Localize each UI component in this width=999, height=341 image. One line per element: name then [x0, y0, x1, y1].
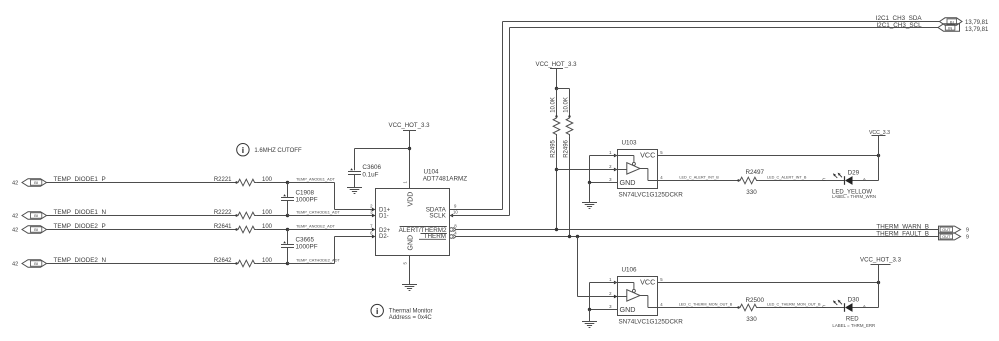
U104 pin ALERT/THERM2 (8) — [399, 223, 458, 234]
svg-text:OUT: OUT — [942, 228, 951, 232]
net label LED_C_THERM_MON_OUT_B — [679, 303, 733, 307]
wire — [658, 307, 739, 309]
wire U103 pin1/pin3 — [590, 156, 618, 183]
svg-text:TEMP_CATHODE2_ADT: TEMP_CATHODE2_ADT — [296, 258, 340, 263]
node VDD branch — [408, 147, 411, 150]
svg-text:10.0K: 10.0K — [564, 97, 570, 113]
svg-text:i: i — [242, 145, 244, 155]
svg-text:100: 100 — [262, 210, 273, 216]
power VCC_HOT_3.3 — [860, 257, 902, 308]
capacitor C3606 — [348, 164, 381, 188]
node TEMP_CATHODE1_ADT — [286, 210, 341, 218]
svg-text:ADT7481ARMZ: ADT7481ARMZ — [423, 176, 468, 183]
svg-text:2: 2 — [609, 291, 612, 296]
LED D30 — [832, 297, 875, 329]
U103 pin GND (3) — [609, 177, 635, 187]
svg-text:OUT: OUT — [942, 235, 951, 239]
LED D29 — [832, 170, 876, 199]
U106 pin 2 arrow — [609, 291, 617, 298]
svg-text:IN: IN — [948, 26, 952, 31]
node — [568, 235, 571, 238]
svg-text:0.1uF: 0.1uF — [362, 171, 378, 178]
net label TEMP_DIODE2_N — [54, 257, 107, 264]
svg-text:A: A — [863, 177, 866, 182]
svg-text:R2222: R2222 — [214, 210, 232, 216]
buffer U106 box — [618, 267, 684, 326]
svg-text:R2642: R2642 — [214, 258, 232, 264]
svg-text:8: 8 — [454, 223, 457, 228]
page ref 42 — [12, 181, 18, 187]
node TEMP_CATHODE2_ADT — [286, 258, 341, 265]
svg-text:BI: BI — [34, 213, 38, 218]
node TEMP_ANODE2_ADT — [286, 224, 336, 232]
port TEMP_DIODE2_P (BI) — [22, 226, 47, 234]
svg-text:100: 100 — [262, 177, 273, 183]
page ref 9 — [966, 228, 969, 234]
svg-text:R2495: R2495 — [551, 139, 557, 157]
node TEMP_ANODE1_ADT — [286, 177, 336, 185]
U103 internal buffer triangle — [618, 156, 658, 181]
port TEMP_DIODE2_N (BI) — [22, 260, 47, 268]
resistor R2642 — [214, 258, 273, 267]
svg-text:13,79,81: 13,79,81 — [965, 27, 989, 33]
U103 pin VCC (5) — [640, 150, 663, 160]
svg-text:I2C1_CH3_SCL: I2C1_CH3_SCL — [876, 22, 922, 29]
capacitor C3665 — [281, 230, 318, 264]
U104 pin VDD (1) — [403, 181, 415, 207]
wire — [589, 310, 591, 322]
ground — [402, 285, 417, 291]
svg-text:i: i — [376, 306, 378, 316]
svg-text:D1-: D1- — [379, 213, 389, 219]
svg-text:D2-: D2- — [379, 234, 389, 240]
page ref 42 — [12, 228, 18, 234]
svg-text:C: C — [822, 177, 826, 182]
svg-text:10: 10 — [453, 210, 458, 215]
port I2C1_CH3_SDA (BI) — [940, 18, 963, 25]
wire — [758, 180, 844, 182]
svg-text:2: 2 — [370, 204, 373, 209]
svg-text:TEMP_ANODE2_ADT: TEMP_ANODE2_ADT — [296, 224, 336, 229]
wire — [47, 215, 237, 217]
svg-text:TEMP_DIODE1_P: TEMP_DIODE1_P — [54, 176, 106, 183]
svg-text:42: 42 — [12, 181, 18, 187]
resistor R2495 — [551, 97, 560, 158]
svg-text:5: 5 — [660, 150, 663, 155]
page ref 9 — [966, 235, 969, 241]
svg-text:9: 9 — [966, 228, 969, 234]
U106 pin 4 label — [660, 302, 663, 307]
wire — [557, 89, 570, 117]
svg-text:BI: BI — [34, 227, 38, 232]
svg-text:BI: BI — [34, 180, 38, 185]
wire THERM_FAULT_B — [456, 236, 939, 238]
node — [555, 228, 558, 231]
wire — [288, 229, 372, 231]
LED D29 cathode label — [822, 177, 826, 182]
U104 pin THERM (4) — [419, 230, 457, 240]
svg-text:6: 6 — [370, 231, 373, 236]
svg-text:LED_C_THERM_MON_OUT_B: LED_C_THERM_MON_OUT_B — [767, 303, 821, 307]
svg-text:330: 330 — [746, 189, 757, 196]
svg-text:TEMP_ANODE1_ADT: TEMP_ANODE1_ADT — [296, 177, 336, 182]
svg-text:VCC_HOT_3.3: VCC_HOT_3.3 — [389, 122, 431, 129]
U106 pin GND (3) — [609, 304, 635, 314]
power VCC_3.3 — [869, 130, 890, 181]
U104 pin SCLK (10) — [429, 210, 458, 220]
svg-text:100: 100 — [262, 224, 273, 230]
wire — [288, 183, 372, 210]
node — [555, 168, 558, 171]
page ref 13,79,81 — [965, 20, 989, 26]
node — [877, 281, 880, 284]
page ref 42 — [12, 262, 18, 268]
note 1.6MHZ CUTOFF — [237, 144, 302, 156]
port THERM_FAULT_B (OUT) — [939, 233, 961, 240]
U103 pin 4 label — [660, 175, 663, 180]
page ref 42 — [12, 214, 18, 220]
svg-text:9: 9 — [966, 235, 969, 241]
net label I2C1_CH3_SCL — [876, 22, 922, 29]
wire — [256, 182, 287, 184]
LED D30 cathode label — [822, 304, 826, 309]
U106 pin 1 arrow — [609, 277, 617, 284]
svg-text:LED_C_ALERT_INT_B: LED_C_ALERT_INT_B — [679, 176, 719, 180]
svg-text:LABEL = THRM_ERR: LABEL = THRM_ERR — [832, 323, 875, 328]
svg-text:VCC: VCC — [640, 151, 655, 160]
note Thermal Monitor Address = 0x4C — [371, 304, 432, 321]
svg-text:VDD: VDD — [408, 192, 415, 207]
svg-text:LED_C_ALERT_INT_B: LED_C_ALERT_INT_B — [767, 176, 807, 180]
svg-text:R2641: R2641 — [214, 224, 232, 230]
node — [576, 235, 579, 238]
svg-text:VCC: VCC — [640, 278, 655, 287]
wire — [658, 155, 879, 157]
svg-text:A: A — [863, 304, 866, 309]
U104 pin D1+ (2) — [370, 204, 391, 214]
buffer U103 box — [618, 140, 684, 199]
ground — [582, 322, 597, 328]
svg-text:3: 3 — [609, 304, 612, 309]
svg-text:SCLK: SCLK — [429, 212, 446, 219]
svg-text:5: 5 — [403, 262, 408, 265]
wire — [355, 149, 410, 171]
svg-text:Address = 0x4C: Address = 0x4C — [389, 315, 433, 321]
svg-text:7: 7 — [370, 224, 373, 229]
wire — [569, 136, 571, 236]
page ref 13,79,81 — [965, 27, 989, 33]
svg-text:10.0K: 10.0K — [551, 97, 557, 113]
svg-text:THERM_FAULT_B: THERM_FAULT_B — [876, 230, 929, 237]
svg-text:R2221: R2221 — [214, 177, 232, 183]
net label TEMP_DIODE2_P — [54, 223, 106, 230]
net label LED_C_ALERT_INT_B — [767, 176, 807, 180]
U106 internal buffer triangle — [618, 283, 658, 308]
svg-text:1: 1 — [403, 181, 408, 184]
wire U106 pin2 feed — [578, 237, 618, 297]
svg-text:LABEL = THRM_WRN: LABEL = THRM_WRN — [832, 194, 876, 199]
node — [588, 181, 591, 184]
wire — [758, 307, 844, 309]
port TEMP_DIODE1_N (BI) — [22, 212, 47, 220]
svg-text:13,79,81: 13,79,81 — [965, 20, 989, 26]
svg-text:BI: BI — [34, 261, 38, 266]
svg-text:R2496: R2496 — [564, 139, 570, 157]
wire SCLK — [450, 28, 939, 216]
svg-text:Thermal Monitor: Thermal Monitor — [389, 309, 433, 315]
U104 pin GND (5) — [403, 235, 415, 285]
svg-text:2: 2 — [609, 164, 612, 169]
U104 pin D2- (6) — [370, 231, 389, 240]
port I2C1_CH3_SCL (IN) — [938, 24, 960, 31]
svg-text:C3606: C3606 — [362, 164, 381, 171]
resistor R2222 — [214, 210, 273, 219]
net label LED_C_THERM_MON_OUT_B — [767, 303, 821, 307]
net label THERM_FAULT_B — [876, 230, 929, 237]
resistor R2500 — [737, 297, 764, 323]
resistor R2641 — [214, 224, 273, 233]
U106 pin VCC (5) — [640, 277, 663, 287]
resistor R2221 — [214, 177, 273, 186]
net label I2C1_CH3_SDA — [876, 15, 923, 22]
net label LED_C_ALERT_INT_B — [679, 176, 719, 180]
wire — [589, 183, 591, 203]
svg-text:C: C — [822, 304, 826, 309]
svg-text:3: 3 — [609, 177, 612, 182]
capacitor C1908 — [281, 183, 318, 216]
wire — [256, 263, 287, 265]
svg-text:GND: GND — [620, 178, 636, 187]
wire — [47, 182, 237, 184]
net label TEMP_DIODE1_P — [54, 176, 106, 183]
svg-text:4: 4 — [660, 302, 663, 307]
svg-text:5: 5 — [660, 277, 663, 282]
wire — [853, 307, 879, 309]
svg-text:GND: GND — [408, 235, 415, 251]
wire — [556, 136, 558, 229]
svg-text:THERM_WARN_B: THERM_WARN_B — [876, 223, 929, 230]
svg-text:GND: GND — [620, 305, 636, 314]
wire U106 pin1/pin3 — [590, 283, 618, 310]
port THERM_WARN_B (OUT) — [939, 226, 961, 233]
U103 pin 2 arrow — [609, 164, 617, 171]
resistor R2496 — [564, 97, 573, 158]
svg-text:VCC_HOT_3.3: VCC_HOT_3.3 — [860, 257, 902, 264]
svg-text:D29: D29 — [848, 170, 860, 177]
svg-text:R2497: R2497 — [746, 169, 765, 176]
U103 pin 1 arrow — [609, 150, 617, 157]
svg-text:4: 4 — [454, 230, 457, 235]
svg-text:U104: U104 — [424, 169, 440, 176]
svg-text:LED_C_THERM_MON_OUT_B: LED_C_THERM_MON_OUT_B — [679, 303, 733, 307]
svg-text:9: 9 — [454, 204, 457, 209]
wire SDATA — [450, 22, 940, 210]
net label TEMP_DIODE1_N — [54, 209, 107, 216]
svg-text:RED: RED — [846, 317, 859, 323]
svg-text:I2C1_CH3_SDA: I2C1_CH3_SDA — [876, 15, 923, 22]
net label THERM_WARN_B — [876, 223, 929, 230]
resistor R2497 — [737, 169, 764, 196]
power VCC_HOT_3.3 — [389, 122, 431, 188]
svg-text:TEMP_DIODE1_N: TEMP_DIODE1_N — [54, 209, 107, 216]
svg-text:SN74LVC1G125DCKR: SN74LVC1G125DCKR — [619, 191, 684, 198]
wire — [47, 229, 237, 231]
svg-text:SN74LVC1G125DCKR: SN74LVC1G125DCKR — [619, 318, 684, 325]
ground — [347, 188, 362, 194]
svg-text:U103: U103 — [622, 140, 638, 147]
svg-text:4: 4 — [660, 175, 663, 180]
node — [555, 87, 558, 90]
svg-text:TEMP_DIODE2_N: TEMP_DIODE2_N — [54, 257, 107, 264]
U104 pin D1- (3) — [370, 210, 389, 220]
port TEMP_DIODE1_P (BI) — [22, 179, 47, 187]
wire U103 pin2 input — [557, 169, 618, 171]
U104 pin SDATA (9) — [426, 204, 457, 214]
svg-text:TEMP_CATHODE1_ADT: TEMP_CATHODE1_ADT — [296, 210, 340, 215]
wire — [658, 180, 739, 182]
svg-text:TEMP_DIODE2_P: TEMP_DIODE2_P — [54, 223, 106, 230]
U104 pin D2+ (7) — [370, 224, 391, 235]
svg-text:42: 42 — [12, 262, 18, 268]
node — [877, 154, 880, 157]
wire — [256, 215, 287, 217]
svg-text:D30: D30 — [848, 297, 860, 304]
svg-text:42: 42 — [12, 228, 18, 234]
wire — [853, 180, 879, 182]
svg-text:U106: U106 — [622, 267, 638, 274]
svg-text:1000PF: 1000PF — [296, 196, 318, 203]
svg-text:42: 42 — [12, 214, 18, 220]
wire THERM_WARN_B — [456, 229, 939, 231]
wire — [288, 215, 372, 217]
svg-text:VCC_HOT_3.3: VCC_HOT_3.3 — [536, 61, 578, 68]
node — [588, 308, 591, 311]
svg-text:330: 330 — [746, 316, 757, 323]
svg-text:R2500: R2500 — [746, 297, 765, 304]
op-amp U104 ADT7481ARMZ box — [376, 169, 468, 256]
svg-text:1: 1 — [609, 277, 612, 282]
ground — [582, 203, 597, 209]
svg-text:1: 1 — [609, 150, 612, 155]
svg-text:1.6MHZ CUTOFF: 1.6MHZ CUTOFF — [254, 148, 302, 154]
svg-text:100: 100 — [262, 258, 273, 264]
wire — [47, 263, 237, 265]
wire — [288, 237, 372, 264]
wire — [658, 282, 879, 284]
power VCC_HOT_3.3 — [536, 61, 578, 88]
svg-text:1000PF: 1000PF — [296, 243, 318, 250]
wire — [256, 229, 287, 231]
